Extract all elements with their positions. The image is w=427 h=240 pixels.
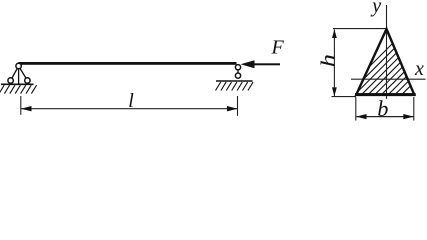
dimension l line — [21, 108, 238, 110]
left support roller left — [8, 78, 13, 83]
left support ground line — [1, 83, 34, 85]
right support link line — [237, 70, 239, 73]
section triangle hatching — [336, 24, 427, 100]
dimension h top extension line — [333, 28, 386, 30]
dimension h arrowhead up — [332, 29, 337, 38]
right support ground line — [216, 80, 253, 82]
dimension b extension line right — [413, 97, 415, 121]
dimension l extension line left — [20, 96, 22, 115]
force F arrow — [241, 60, 281, 68]
svg-text:x: x — [414, 58, 424, 80]
dimension b line — [356, 116, 413, 118]
svg-text:F: F — [271, 37, 285, 59]
beam — [19, 62, 237, 65]
dimension l arrowhead left — [21, 106, 32, 111]
dimension h line — [333, 29, 335, 96]
right support roller lower — [235, 73, 240, 78]
dimension h bottom extension line — [332, 96, 357, 98]
left support pin circle — [16, 63, 21, 68]
dimension h arrowhead down — [332, 87, 337, 96]
svg-text:l: l — [128, 90, 134, 112]
left support ground hatching — [0, 85, 37, 93]
left support roller right — [25, 78, 30, 83]
section triangle base thick line — [355, 93, 416, 96]
svg-text:b: b — [377, 96, 388, 121]
svg-text:y: y — [370, 0, 381, 17]
left support pin legs — [11, 66, 28, 84]
dimension b arrowhead right — [403, 114, 413, 119]
svg-text:h: h — [317, 54, 339, 67]
x-axis — [351, 78, 426, 80]
dimension l extension line right — [237, 96, 239, 116]
dimension b extension line left — [355, 97, 357, 121]
right support ground hatching — [216, 82, 254, 90]
y-axis — [386, 5, 388, 99]
dimension b arrowhead left — [356, 114, 366, 119]
dimension l arrowhead right — [227, 106, 238, 111]
section triangle outline — [356, 29, 414, 95]
right support roller upper — [235, 65, 240, 70]
